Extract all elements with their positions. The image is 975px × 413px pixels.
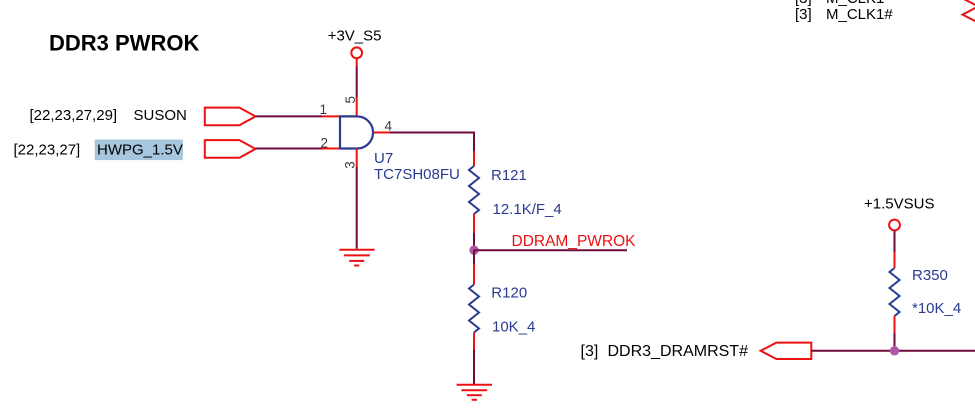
connector tag HWPG_1.5V <box>205 140 256 158</box>
wire U7 out to R121 <box>390 132 474 151</box>
wire node to right <box>474 249 627 251</box>
resistor R121 <box>473 151 475 166</box>
svg-text:DDR3 PWROK: DDR3 PWROK <box>49 31 199 56</box>
svg-text:[3]: [3] <box>581 343 599 360</box>
svg-text:[3]: [3] <box>795 6 812 23</box>
connector tag DDR3_DRAMRST# <box>761 343 812 359</box>
svg-text:+1.5VSUS: +1.5VSUS <box>864 196 934 213</box>
svg-text:DDRAM_PWROK: DDRAM_PWROK <box>512 233 637 250</box>
wire pin3 to ground <box>356 167 358 249</box>
svg-text:10K_4: 10K_4 <box>492 318 535 335</box>
svg-text:2: 2 <box>321 136 329 151</box>
svg-text:+3V_S5: +3V_S5 <box>328 28 382 45</box>
net label M_CLK1 (cut off at top edge) <box>795 0 884 7</box>
power symbol +3V_S5 <box>351 47 362 58</box>
connector tag SUSON <box>205 108 256 126</box>
pin 3 stub <box>356 149 358 168</box>
svg-text:HWPG_1.5V: HWPG_1.5V <box>97 141 183 158</box>
resistor R350 <box>894 231 896 253</box>
pin 2 stub <box>322 148 340 150</box>
svg-text:R350: R350 <box>912 267 948 284</box>
svg-text:*10K_4: *10K_4 <box>912 300 961 317</box>
resistor R120 <box>473 250 475 264</box>
ground (R120) <box>457 385 492 400</box>
wire HWPG to U7 pin2 <box>256 148 323 150</box>
node R350 junction <box>890 346 899 355</box>
highlight HWPG_1.5V <box>95 140 183 161</box>
svg-text:U7: U7 <box>374 150 393 167</box>
wire SUSON to U7 pin1 <box>256 115 323 117</box>
wire +3V_S5 stub <box>356 58 358 66</box>
svg-text:R120: R120 <box>491 285 527 302</box>
pin 1 stub <box>322 115 340 117</box>
svg-text:DDR3_DRAMRST#: DDR3_DRAMRST# <box>608 343 749 360</box>
AND gate U7 <box>340 116 373 148</box>
connector tag M_CLK1 (cut off) <box>963 0 975 6</box>
net label DDR3_DRAMRST# row <box>581 343 749 360</box>
svg-text:4: 4 <box>385 119 393 134</box>
svg-text:5: 5 <box>343 96 358 104</box>
net label HWPG row <box>14 141 183 158</box>
svg-text:R121: R121 <box>491 167 527 184</box>
net label SUSON row <box>30 107 187 124</box>
svg-text:[22,23,27,29]: [22,23,27,29] <box>30 107 118 124</box>
svg-text:SUSON: SUSON <box>134 107 187 124</box>
svg-text:M_CLK1#: M_CLK1# <box>826 6 893 23</box>
pin 5 stub <box>356 98 358 117</box>
svg-text:TC7SH08FU: TC7SH08FU <box>374 166 460 183</box>
wire DRAMRST to right edge <box>811 350 975 352</box>
wire +3V_S5 to U7 pin5 <box>356 67 358 98</box>
svg-text:1: 1 <box>320 102 328 117</box>
node DDRAM_PWROK junction <box>469 246 478 255</box>
svg-text:3: 3 <box>342 161 357 169</box>
wire R121 to node <box>473 233 475 250</box>
svg-text:[22,23,27]: [22,23,27] <box>14 141 81 158</box>
connector tag M_CLK1# (cut off) <box>963 7 975 23</box>
svg-text:12.1K/F_4: 12.1K/F_4 <box>493 201 562 218</box>
power symbol +1.5VSUS <box>889 220 900 231</box>
wire R120 to ground <box>473 350 475 384</box>
ground (U7 pin3) <box>339 250 374 266</box>
net label M_CLK1# <box>795 6 893 23</box>
pin 4 stub <box>373 131 390 133</box>
